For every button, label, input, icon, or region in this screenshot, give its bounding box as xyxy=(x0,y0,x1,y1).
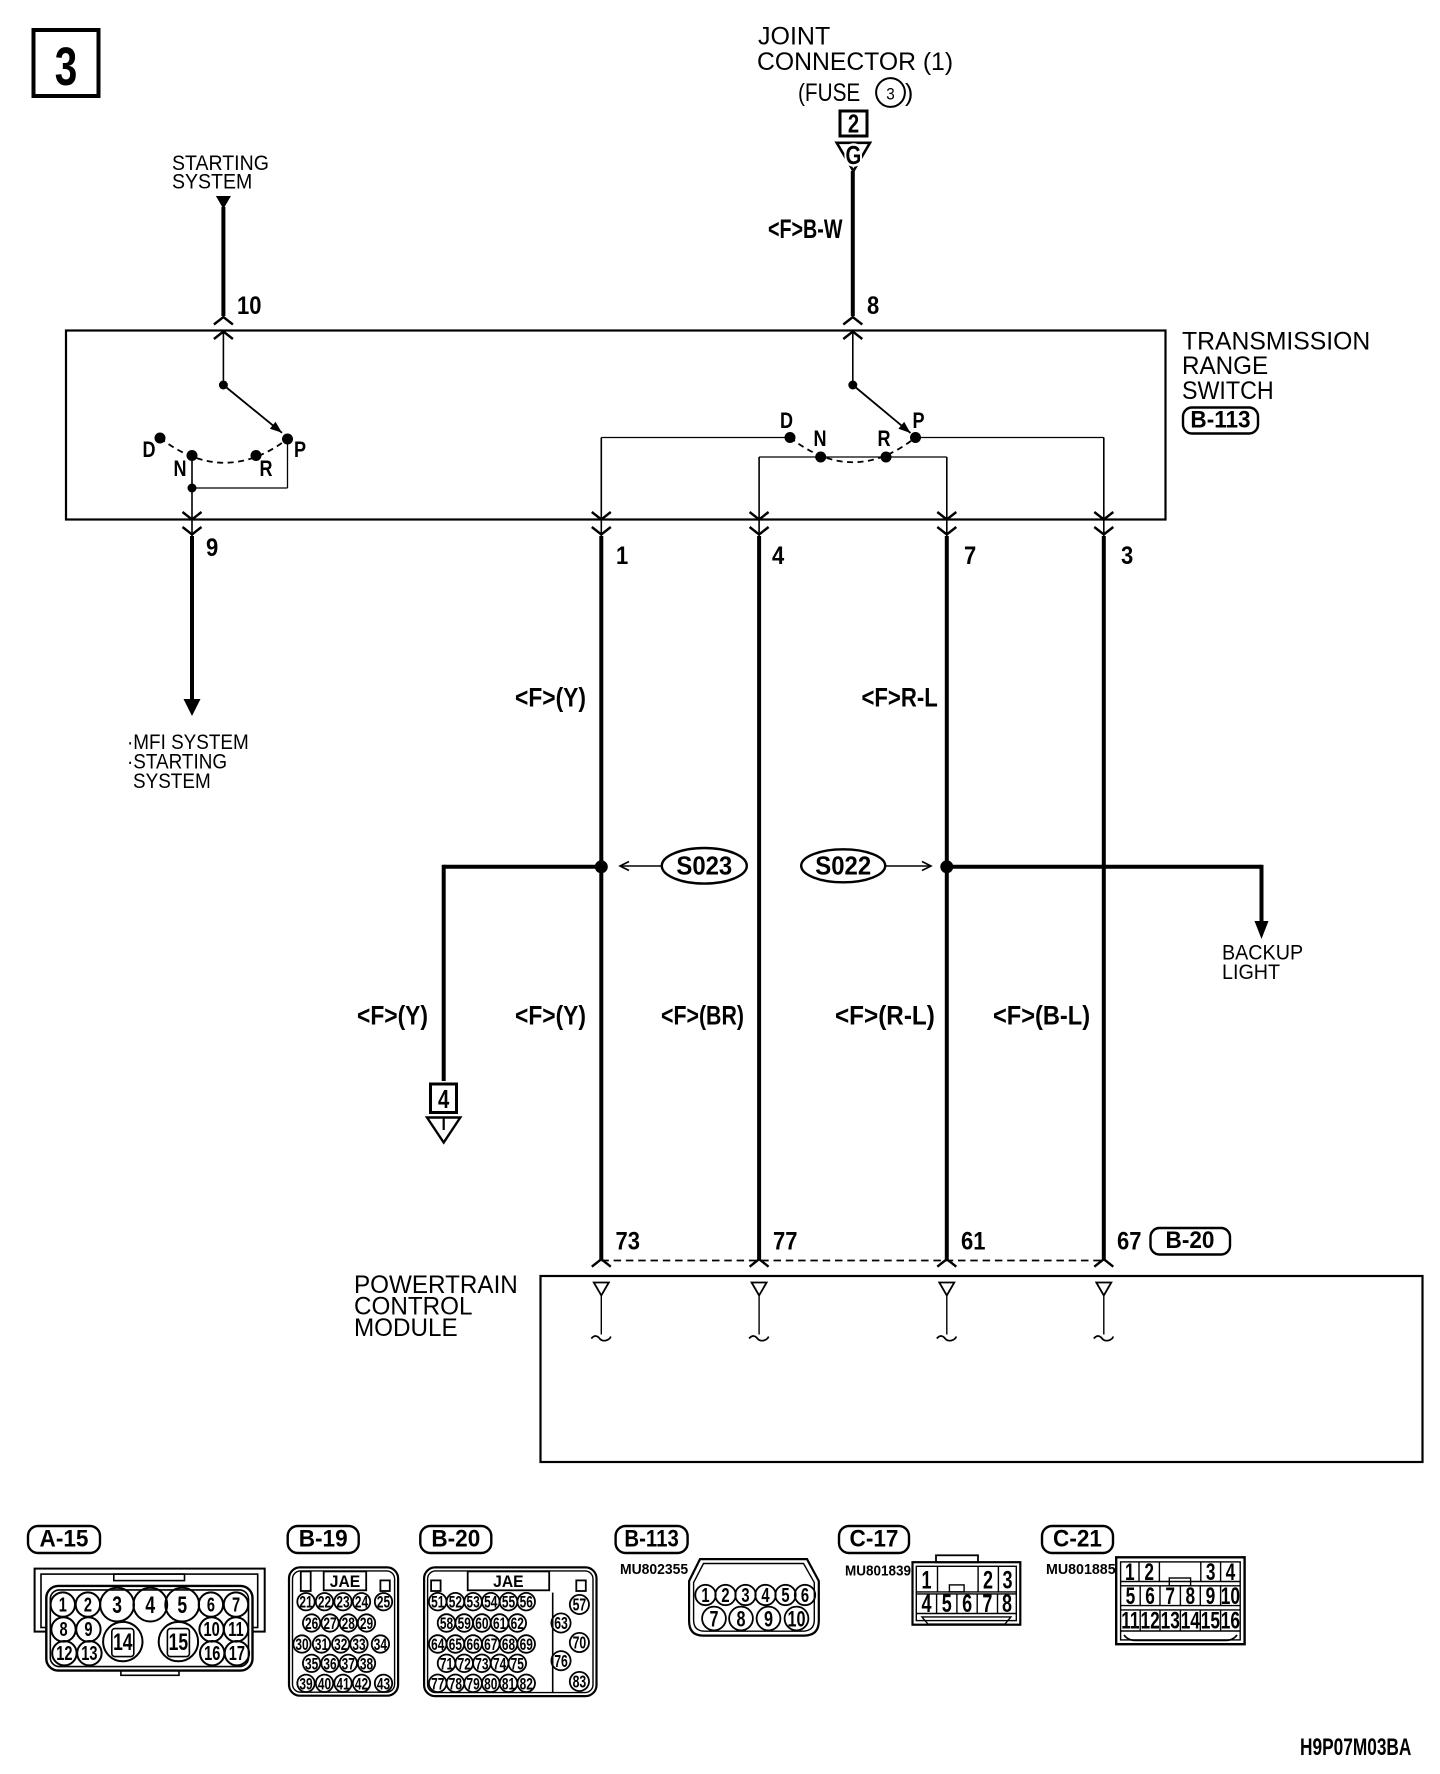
svg-text:1: 1 xyxy=(1125,1559,1135,1585)
A-15 pin 8 xyxy=(51,1617,75,1641)
PCM internal pin symbol at x=601.3 xyxy=(594,1283,609,1296)
B-19 top tab xyxy=(301,1571,311,1591)
B-20 pin 79 xyxy=(464,1675,482,1693)
B-19 pin 35 xyxy=(303,1655,320,1672)
arrow to backup light xyxy=(1255,921,1269,939)
svg-text:MU801885: MU801885 xyxy=(1046,1562,1116,1578)
B-20 pin 81 xyxy=(500,1675,518,1693)
B-20 pin 65 xyxy=(447,1635,465,1653)
B-19 pin 40 xyxy=(316,1675,333,1692)
wire N-R bus pins 4 and 7 xyxy=(759,456,947,458)
B-19 pin 31 xyxy=(313,1635,330,1652)
svg-text:7: 7 xyxy=(709,1607,718,1632)
B-20 pin 73 xyxy=(473,1655,491,1673)
svg-text:28: 28 xyxy=(342,1615,355,1634)
connector label B-113 xyxy=(1183,408,1258,434)
svg-text:9: 9 xyxy=(764,1607,773,1632)
svg-text:C-21: C-21 xyxy=(1053,1525,1102,1552)
B-113 pin 3 xyxy=(735,1585,755,1605)
svg-text:N: N xyxy=(813,427,826,451)
connector label B-20 xyxy=(1151,1228,1231,1255)
svg-text:36: 36 xyxy=(323,1655,336,1674)
B-20 pin 64 xyxy=(429,1635,447,1653)
B-19 top tab right xyxy=(380,1580,389,1591)
svg-text:67: 67 xyxy=(484,1636,497,1655)
A-15 pin 14 xyxy=(103,1622,142,1661)
wire switch1 common xyxy=(222,332,224,386)
A-15 pin 9 xyxy=(76,1617,100,1641)
wire contact D to pin 1 xyxy=(601,437,790,439)
svg-text:79: 79 xyxy=(466,1675,479,1694)
svg-text:42: 42 xyxy=(355,1675,368,1694)
svg-text:43: 43 xyxy=(377,1675,390,1694)
connector pinout B-20 label xyxy=(420,1526,491,1553)
B-20 pin 61 xyxy=(491,1614,509,1632)
svg-text:21: 21 xyxy=(299,1594,312,1613)
svg-text:74: 74 xyxy=(493,1655,507,1674)
svg-text:34: 34 xyxy=(374,1636,388,1655)
svg-text:67: 67 xyxy=(1117,1227,1141,1255)
B-20 pin 71 xyxy=(438,1655,456,1673)
svg-text:4: 4 xyxy=(438,1085,449,1114)
svg-text:3: 3 xyxy=(1206,1559,1216,1585)
S023 pointer arrow xyxy=(620,862,629,871)
svg-text:<F>(R-L): <F>(R-L) xyxy=(835,1001,935,1030)
connector A-15 body xyxy=(46,1586,252,1671)
C-21 row2 divider xyxy=(1199,1586,1201,1606)
B-20 divider xyxy=(552,1593,554,1692)
B-20 pin 52 xyxy=(447,1593,465,1611)
svg-text:63: 63 xyxy=(554,1614,568,1634)
wire pin1/73 (thick) xyxy=(599,536,603,1259)
svg-text:2: 2 xyxy=(848,109,859,138)
svg-text:37: 37 xyxy=(342,1655,355,1674)
svg-text:LIGHT: LIGHT xyxy=(1222,961,1280,984)
wire contact P to pin 3 xyxy=(916,437,1104,439)
B-20 pin 51 xyxy=(429,1593,447,1611)
B-20 pin 82 xyxy=(517,1675,535,1693)
svg-text:D: D xyxy=(142,438,155,462)
svg-text:72: 72 xyxy=(458,1655,471,1674)
B-113 pin 9 xyxy=(757,1607,781,1631)
A-15 pin 2 xyxy=(76,1592,100,1616)
connector B-19 body xyxy=(289,1567,398,1695)
wire pin4/77 (thick) xyxy=(757,536,761,1259)
B-19 pin 39 xyxy=(297,1675,314,1692)
B-113 pin 10 xyxy=(785,1607,809,1631)
junction on N wire xyxy=(188,484,197,493)
svg-text:12: 12 xyxy=(1140,1608,1159,1634)
svg-text:JOINT: JOINT xyxy=(758,22,830,50)
svg-text:75: 75 xyxy=(511,1655,524,1674)
S023 ellipse xyxy=(662,848,747,884)
svg-text:51: 51 xyxy=(431,1594,444,1613)
svg-text:<F>(Y): <F>(Y) xyxy=(357,1001,428,1031)
connector crossing pin 4 xyxy=(750,512,769,520)
B-19 pin 32 xyxy=(332,1635,349,1652)
svg-text:<F>(Y): <F>(Y) xyxy=(515,683,586,713)
svg-text:41: 41 xyxy=(336,1675,349,1694)
svg-text:35: 35 xyxy=(305,1655,318,1674)
connector crossing pin 9 xyxy=(183,512,202,520)
svg-text:14: 14 xyxy=(113,1629,133,1655)
C-21 row2 divider xyxy=(1179,1586,1181,1606)
connector pinout A-15 label xyxy=(28,1526,100,1553)
svg-text:6: 6 xyxy=(207,1593,215,1616)
svg-text:38: 38 xyxy=(360,1655,373,1674)
wire switch2 common xyxy=(852,332,854,386)
B-20 pin 57 xyxy=(570,1595,589,1614)
C-21 row2 divider xyxy=(1139,1586,1141,1606)
svg-text:10: 10 xyxy=(203,1618,219,1641)
svg-text:C-17: C-17 xyxy=(850,1525,899,1552)
svg-text:64: 64 xyxy=(431,1636,445,1655)
C-21 bottom tab xyxy=(1124,1635,1237,1641)
svg-text:59: 59 xyxy=(458,1615,471,1634)
svg-text:56: 56 xyxy=(520,1594,533,1613)
svg-text:23: 23 xyxy=(336,1594,349,1613)
B-19 pin 41 xyxy=(334,1675,351,1692)
svg-text:60: 60 xyxy=(475,1615,488,1634)
svg-text:): ) xyxy=(905,79,913,107)
B-20 top tab left xyxy=(431,1580,441,1591)
B-19 pin 30 xyxy=(293,1635,310,1652)
svg-text:2: 2 xyxy=(84,1593,92,1616)
B-19 pin 33 xyxy=(350,1635,367,1652)
A-15 pin 1 xyxy=(51,1592,75,1616)
inter-sheet connector box 4 xyxy=(431,1084,457,1113)
svg-text:JAE: JAE xyxy=(493,1573,524,1591)
A-15 pin 4 xyxy=(133,1588,167,1622)
svg-text:MU802355: MU802355 xyxy=(620,1562,688,1579)
svg-text:<F>B-W: <F>B-W xyxy=(768,215,843,245)
C-21 row1 dividers xyxy=(1138,1562,1140,1582)
svg-text:82: 82 xyxy=(520,1675,533,1694)
A-15 pin 15 xyxy=(159,1622,198,1661)
C-21 middle tab xyxy=(1169,1578,1190,1586)
B-113 pin 4 xyxy=(755,1585,775,1605)
svg-text:3: 3 xyxy=(886,85,895,104)
B-20 pin 58 xyxy=(438,1614,456,1632)
svg-text:25: 25 xyxy=(377,1594,390,1613)
switch1 wiper arm xyxy=(223,385,282,433)
B-20 pin 63 xyxy=(551,1613,570,1632)
B-19 pin 24 xyxy=(353,1593,370,1610)
svg-text:R: R xyxy=(259,457,272,481)
svg-text:66: 66 xyxy=(466,1636,479,1655)
PCM internal pin symbol at x=946.8 xyxy=(939,1283,954,1296)
svg-text:69: 69 xyxy=(520,1636,533,1655)
switch1 contact R xyxy=(251,450,262,461)
svg-text:7: 7 xyxy=(1165,1583,1175,1609)
wire pin 9 to MFI system (thick) xyxy=(190,536,194,700)
powertrain control module box xyxy=(541,1276,1423,1462)
A-15 pin 16 xyxy=(200,1641,224,1665)
connector pinout B-113 label xyxy=(616,1526,688,1553)
svg-text:B-20: B-20 xyxy=(1166,1226,1215,1253)
B-19 pin 42 xyxy=(353,1675,370,1692)
svg-text:83: 83 xyxy=(573,1673,587,1693)
svg-text:6: 6 xyxy=(801,1584,809,1607)
B-20 pin 62 xyxy=(509,1614,527,1632)
B-20 pin 55 xyxy=(500,1593,518,1611)
B-20 pin 60 xyxy=(473,1614,491,1632)
B-20 pin 70 xyxy=(570,1633,589,1652)
svg-text:8: 8 xyxy=(867,292,879,320)
svg-text:CONNECTOR (1): CONNECTOR (1) xyxy=(757,48,953,76)
B-20 pin 83 xyxy=(570,1672,589,1691)
connector A-15 housing xyxy=(35,1569,265,1632)
svg-text:12: 12 xyxy=(56,1642,72,1665)
fuse number circle 3 xyxy=(876,78,905,107)
svg-text:76: 76 xyxy=(554,1652,568,1672)
switch2 pivot xyxy=(848,381,857,390)
wire pin 8 (thick) xyxy=(851,171,855,316)
switch2 contact arc (dashed) xyxy=(790,438,916,463)
B-20 pin 77 xyxy=(429,1675,447,1693)
switch1 pivot xyxy=(219,381,228,390)
svg-text:B-113: B-113 xyxy=(1190,406,1250,433)
connector crossing pin 7 xyxy=(937,512,956,520)
svg-text:3: 3 xyxy=(1121,542,1133,570)
svg-text:73: 73 xyxy=(475,1655,488,1674)
wire end chevron pin1/73 xyxy=(592,1259,611,1267)
B-19 JAE box xyxy=(324,1571,367,1590)
S022 pointer arrow xyxy=(922,862,931,871)
switch1 contact P xyxy=(282,434,293,445)
svg-text:SYSTEM: SYSTEM xyxy=(133,770,211,793)
B-20 pin 72 xyxy=(455,1655,473,1673)
svg-text:15: 15 xyxy=(169,1629,189,1655)
svg-text:71: 71 xyxy=(440,1655,453,1674)
B-113 pin 8 xyxy=(729,1607,753,1631)
svg-text:30: 30 xyxy=(295,1636,308,1655)
connector B-20 body xyxy=(424,1567,596,1696)
svg-text:S023: S023 xyxy=(676,852,732,881)
connector crossing pin 3 xyxy=(1094,512,1113,520)
svg-text:33: 33 xyxy=(352,1636,365,1655)
switch2 contact D xyxy=(785,432,796,443)
wire pin 10 (thick) xyxy=(221,207,225,316)
svg-text:D: D xyxy=(780,409,793,433)
svg-text:17: 17 xyxy=(229,1642,245,1665)
B-113 pin 6 xyxy=(795,1585,815,1605)
B-19 pin 36 xyxy=(321,1655,338,1672)
C-17 middle notch xyxy=(949,1585,964,1592)
svg-text:65: 65 xyxy=(449,1636,462,1655)
C-17 bottom tab xyxy=(922,1617,1011,1624)
svg-text:S022: S022 xyxy=(815,852,871,881)
svg-text:8: 8 xyxy=(1002,1589,1012,1618)
svg-text:3: 3 xyxy=(112,1592,122,1618)
svg-text:8: 8 xyxy=(1185,1583,1195,1609)
svg-text:H9P07M03BA: H9P07M03BA xyxy=(1300,1734,1411,1760)
B-113 pin 7 xyxy=(702,1607,726,1631)
svg-text:54: 54 xyxy=(484,1594,498,1613)
B-19 pin 28 xyxy=(340,1614,357,1631)
svg-text:5: 5 xyxy=(177,1592,187,1618)
page number 3 xyxy=(34,30,99,96)
svg-text:61: 61 xyxy=(961,1227,985,1255)
svg-text:10: 10 xyxy=(1221,1583,1240,1609)
B-20 pin 53 xyxy=(464,1593,482,1611)
arrow from starting system xyxy=(216,196,231,209)
B-19 pin 43 xyxy=(375,1675,392,1692)
svg-text:5: 5 xyxy=(1126,1583,1136,1609)
svg-text:10: 10 xyxy=(237,292,261,320)
svg-text:26: 26 xyxy=(305,1615,318,1634)
svg-text:MODULE: MODULE xyxy=(354,1315,458,1342)
B-20 pin 59 xyxy=(455,1614,473,1632)
B-19 pin 21 xyxy=(297,1593,314,1610)
svg-text:80: 80 xyxy=(484,1675,497,1694)
svg-text:8: 8 xyxy=(736,1607,745,1632)
A-15 pin 3 xyxy=(100,1588,134,1622)
switch2 wiper arm xyxy=(853,385,911,433)
svg-text:B-19: B-19 xyxy=(299,1525,348,1552)
B-20 top tab right xyxy=(576,1580,586,1591)
svg-text:9: 9 xyxy=(1206,1583,1216,1609)
C-21 row2 divider xyxy=(1220,1586,1222,1606)
switch2 contact P xyxy=(910,432,921,443)
connector pinout B-19 label xyxy=(288,1526,359,1553)
B-19 pin 29 xyxy=(358,1614,375,1631)
svg-text:78: 78 xyxy=(449,1675,462,1694)
B-19 pin 27 xyxy=(321,1614,338,1631)
svg-text:SWITCH: SWITCH xyxy=(1182,377,1274,405)
svg-text:52: 52 xyxy=(449,1594,462,1613)
svg-text:4: 4 xyxy=(921,1589,931,1618)
B-20 pin 74 xyxy=(491,1655,509,1673)
connector crossing pin 1 xyxy=(592,512,611,520)
arrow to MFI system xyxy=(184,699,201,716)
B-19 pin 23 xyxy=(334,1593,351,1610)
svg-text:14: 14 xyxy=(1181,1608,1201,1634)
B-20 pin 69 xyxy=(517,1635,535,1653)
B-20 pin 56 xyxy=(517,1593,535,1611)
svg-text:40: 40 xyxy=(318,1675,331,1694)
wire end chevron pin3/67 xyxy=(1094,1259,1113,1267)
B-113 pin 2 xyxy=(715,1585,735,1605)
B-20 pin 67 xyxy=(482,1635,500,1653)
branch wire to backup light (thick) xyxy=(947,865,1262,869)
svg-text:58: 58 xyxy=(440,1615,453,1634)
B-19 pin 25 xyxy=(375,1593,392,1610)
wire pin7/61 (thick) xyxy=(945,536,949,1259)
PCM internal pin symbol at x=759.1 xyxy=(752,1283,767,1296)
switch1 contact D xyxy=(155,433,166,444)
svg-text:4: 4 xyxy=(1226,1559,1236,1585)
svg-text:3: 3 xyxy=(55,37,78,97)
junction S023 xyxy=(595,860,608,873)
switch2 contact N xyxy=(815,452,826,463)
branch wire to connector 4 (thick) xyxy=(444,865,602,869)
svg-text:G: G xyxy=(846,141,862,170)
wire N to pin 9 xyxy=(191,456,193,538)
junction S022 xyxy=(940,860,953,873)
svg-text:<F>(B-L): <F>(B-L) xyxy=(993,1001,1090,1031)
B-20 pin 78 xyxy=(447,1675,465,1693)
svg-text:1: 1 xyxy=(701,1584,709,1607)
svg-text:5: 5 xyxy=(942,1589,952,1618)
svg-text:P: P xyxy=(294,438,306,462)
svg-text:RANGE: RANGE xyxy=(1182,353,1268,380)
connector crossing pin 10 xyxy=(214,317,233,325)
connector C-21 body xyxy=(1116,1557,1244,1644)
B-20 pin 54 xyxy=(482,1593,500,1611)
PCM internal pin symbol at x=1103.8 xyxy=(1096,1283,1111,1296)
svg-text:11: 11 xyxy=(228,1618,244,1641)
svg-text:<F>R-L: <F>R-L xyxy=(862,684,938,714)
C-21 row2 divider xyxy=(1159,1586,1161,1606)
B-20 pin 75 xyxy=(509,1655,527,1673)
svg-text:7: 7 xyxy=(232,1593,240,1616)
connector pinout C-21 label xyxy=(1042,1526,1113,1553)
svg-text:16: 16 xyxy=(1221,1608,1240,1634)
ground triangle G xyxy=(837,143,870,171)
svg-text:10: 10 xyxy=(787,1607,805,1632)
svg-text:77: 77 xyxy=(773,1227,797,1255)
svg-text:32: 32 xyxy=(334,1636,347,1655)
svg-text:6: 6 xyxy=(962,1589,972,1618)
B-20 pin 66 xyxy=(464,1635,482,1653)
joint connector box 2 xyxy=(840,111,867,136)
B-19 pin 37 xyxy=(340,1655,357,1672)
svg-text:24: 24 xyxy=(355,1594,369,1613)
A-15 pin 17 xyxy=(225,1641,249,1665)
svg-text:68: 68 xyxy=(502,1636,515,1655)
svg-text:B-113: B-113 xyxy=(624,1525,678,1552)
A-15 pin 11 xyxy=(224,1617,248,1641)
svg-text:70: 70 xyxy=(573,1634,587,1654)
svg-text:7: 7 xyxy=(982,1589,992,1618)
A-15 pin 12 xyxy=(52,1641,76,1665)
B-19 pin 26 xyxy=(303,1614,320,1631)
svg-text:5: 5 xyxy=(781,1584,789,1607)
svg-text:15: 15 xyxy=(1201,1608,1221,1634)
svg-text:29: 29 xyxy=(360,1615,373,1634)
svg-text:N: N xyxy=(173,457,186,481)
A-15 pin 5 xyxy=(165,1588,199,1622)
svg-text:9: 9 xyxy=(84,1618,92,1641)
svg-text:4: 4 xyxy=(761,1584,769,1607)
svg-text:11: 11 xyxy=(1121,1608,1140,1634)
svg-text:27: 27 xyxy=(323,1615,336,1634)
svg-text:62: 62 xyxy=(511,1615,524,1634)
connector crossing pin 8 xyxy=(843,317,862,325)
svg-text:1: 1 xyxy=(616,542,628,570)
svg-text:<F>(Y): <F>(Y) xyxy=(515,1001,586,1031)
svg-text:39: 39 xyxy=(299,1675,312,1694)
A-15 pin 7 xyxy=(224,1592,248,1616)
svg-text:3: 3 xyxy=(741,1584,749,1607)
B-19 pin 22 xyxy=(316,1593,333,1610)
svg-text:4: 4 xyxy=(145,1592,155,1618)
svg-text:2: 2 xyxy=(721,1584,729,1607)
svg-text:61: 61 xyxy=(493,1615,506,1634)
svg-text:13: 13 xyxy=(81,1642,97,1665)
svg-text:B-20: B-20 xyxy=(431,1525,480,1552)
svg-text:(FUSE: (FUSE xyxy=(798,78,860,106)
svg-text:81: 81 xyxy=(502,1675,515,1694)
connector C-17 body xyxy=(936,1555,978,1562)
svg-text:4: 4 xyxy=(772,542,784,570)
svg-text:57: 57 xyxy=(573,1596,587,1616)
svg-text:<F>(BR): <F>(BR) xyxy=(661,1001,744,1031)
connector pinout C-17 label xyxy=(839,1526,909,1553)
svg-text:73: 73 xyxy=(616,1227,640,1255)
svg-text:MU801839: MU801839 xyxy=(845,1563,911,1580)
